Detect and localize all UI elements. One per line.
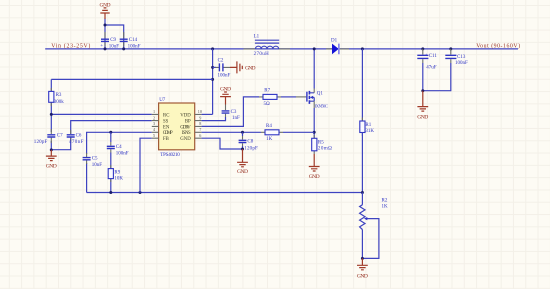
ground GND (above C3, inverted) — [220, 87, 231, 105]
svg-text:3: 3 — [153, 121, 155, 126]
svg-text:C2: C2 — [218, 58, 224, 63]
svg-text:20mΩ: 20mΩ — [318, 147, 332, 152]
svg-text:10: 10 — [198, 109, 202, 114]
wire VDD (pin 10) — [202, 113, 213, 115]
svg-text:GND: GND — [245, 66, 256, 72]
wire RC (pin 1) — [51, 113, 152, 115]
svg-text:R5: R5 — [318, 141, 324, 146]
svg-text:COMP: COMP — [163, 131, 173, 136]
wire rail2 (R3 top to VDD riser) — [51, 78, 212, 80]
svg-text:SS: SS — [163, 119, 169, 124]
svg-text:FB: FB — [163, 137, 169, 142]
pin numbers — [153, 109, 202, 138]
svg-text:2: 2 — [153, 115, 155, 120]
potentiometer R2 — [360, 193, 388, 259]
capacitor C14 — [120, 32, 141, 50]
svg-text:10K: 10K — [114, 177, 123, 182]
svg-text:C7: C7 — [57, 134, 63, 139]
svg-text:C9: C9 — [110, 38, 116, 43]
svg-text:+: + — [100, 44, 103, 49]
wire VDD riser (Vin to pin 10) — [212, 49, 214, 115]
svg-text:GND: GND — [220, 87, 231, 93]
svg-text:BP: BP — [185, 119, 191, 124]
svg-text:GND: GND — [417, 114, 428, 120]
svg-text:R3: R3 — [56, 93, 62, 98]
svg-text:C8: C8 — [247, 139, 253, 144]
svg-text:5Ω: 5Ω — [264, 102, 271, 107]
svg-text:GND: GND — [309, 174, 320, 180]
svg-text:EN: EN — [163, 125, 170, 130]
svg-text:C14: C14 — [129, 38, 138, 43]
svg-text:U7: U7 — [159, 98, 166, 103]
wire COMP (pin 4) — [87, 132, 152, 192]
svg-text:TPS40210: TPS40210 — [160, 153, 180, 158]
svg-text:6: 6 — [199, 133, 201, 138]
wire R3 branch / RC node vertical — [50, 79, 52, 149]
ground GND (right of C2, bar style) — [230, 61, 256, 73]
svg-text:5: 5 — [153, 133, 155, 138]
svg-text:R7: R7 — [264, 89, 270, 94]
svg-text:10uF: 10uF — [109, 45, 120, 50]
wire GND (pin 6) to C8 ground node — [202, 138, 243, 149]
svg-text:ISNS: ISNS — [182, 131, 191, 136]
svg-text:+: + — [425, 54, 428, 59]
svg-text:Q1: Q1 — [317, 91, 324, 96]
svg-text:R1: R1 — [365, 123, 371, 128]
wire FB net (bottom wire to divider) — [87, 192, 363, 194]
svg-text:100nF: 100nF — [116, 152, 129, 157]
capacitor C6 — [67, 130, 84, 145]
capacitor C5 — [83, 153, 103, 168]
wire D1 cathode to Vout / divider riser — [361, 47, 364, 50]
svg-text:D1: D1 — [331, 39, 338, 44]
resistor R5 (current sense) — [312, 135, 332, 154]
ground GND (below R5) — [309, 154, 320, 180]
wire FB (pin 5) riser — [140, 138, 152, 192]
wire SS (pin 2) to C6 — [51, 121, 152, 150]
diode D1 — [326, 39, 349, 55]
ground GND (top-left, above C9/C14) — [100, 3, 111, 19]
svg-text:C13: C13 — [457, 55, 466, 60]
svg-text:L1: L1 — [254, 35, 260, 40]
svg-text:1nF: 1nF — [232, 116, 240, 121]
svg-text:GND: GND — [100, 3, 111, 9]
resistor R4 — [261, 124, 283, 142]
svg-text:R9: R9 — [114, 171, 120, 176]
svg-text:7: 7 — [199, 127, 201, 132]
svg-text:R4: R4 — [266, 124, 272, 129]
svg-text:4: 4 — [153, 127, 156, 132]
svg-text:300k: 300k — [54, 100, 65, 105]
svg-text:VDD: VDD — [180, 113, 191, 118]
svg-text:1K: 1K — [382, 205, 389, 210]
ground GND (below C11/C13) — [417, 91, 428, 121]
pin names — [163, 113, 192, 142]
ground GND (below R2) — [357, 258, 368, 279]
wire Q1 source down — [313, 108, 315, 138]
svg-text:100nF: 100nF — [218, 74, 231, 79]
svg-text:9: 9 — [199, 115, 201, 120]
wiper of R2 — [362, 219, 379, 259]
wire GDRV (pin 8) up and over to R7 — [202, 97, 259, 127]
resistor R9 — [108, 153, 123, 193]
capacitor C7 — [34, 129, 63, 145]
capacitor C9 — [100, 32, 119, 50]
wire BP (pin 9) to C3 — [202, 117, 226, 121]
svg-text:C4: C4 — [116, 145, 122, 150]
resistor R3 — [49, 88, 65, 106]
svg-text:GND: GND — [180, 137, 191, 142]
transistor Q1 — [307, 89, 328, 109]
svg-text:120pF: 120pF — [244, 147, 258, 152]
svg-text:IXN50C: IXN50C — [315, 104, 328, 109]
svg-text:GND: GND — [46, 164, 57, 170]
capacitor C8 — [239, 132, 258, 151]
svg-text:R2: R2 — [382, 199, 388, 204]
wire Vin rail — [45, 48, 518, 50]
wire R4 to Q1 source node — [283, 131, 314, 133]
svg-text:470nF: 470nF — [69, 140, 84, 145]
wire top-left decoupling tee — [105, 19, 124, 49]
resistor R1 — [360, 118, 375, 137]
svg-text:Vin (23-25V): Vin (23-25V) — [51, 42, 90, 49]
svg-text:GND: GND — [237, 169, 248, 175]
pin stubs right — [195, 114, 202, 138]
svg-text:C5: C5 — [92, 156, 98, 161]
wire ISNS (pin 7) to R4 — [202, 131, 261, 133]
svg-text:1K: 1K — [266, 137, 273, 142]
svg-text:31K: 31K — [365, 129, 374, 134]
ground GND (below C7/C6) — [46, 150, 57, 170]
resistor R7 — [259, 89, 281, 107]
svg-text:270uH: 270uH — [254, 52, 270, 57]
svg-text:RC: RC — [163, 113, 169, 118]
svg-text:47uF: 47uF — [426, 66, 437, 71]
svg-text:100nF: 100nF — [128, 45, 141, 50]
capacitor C4 — [107, 132, 129, 156]
pin stubs left — [152, 114, 159, 138]
svg-text:1: 1 — [153, 109, 155, 114]
svg-text:10nF: 10nF — [92, 163, 103, 168]
svg-text:120pF: 120pF — [34, 140, 48, 145]
junction dots on Vin rail — [104, 24, 107, 27]
wire R7 to Q1 gate — [281, 96, 296, 98]
capacitor C11 — [417, 47, 437, 90]
svg-text:C3: C3 — [231, 110, 237, 115]
capacitor C3 — [222, 105, 240, 122]
capacitor C13 — [423, 47, 468, 90]
svg-text:C6: C6 — [76, 133, 82, 138]
inductor L1 — [244, 35, 291, 58]
wire Q1 drain to rail — [313, 49, 315, 89]
op-amp U7 TPS40210 — [152, 98, 202, 158]
svg-text:8: 8 — [199, 121, 201, 126]
svg-text:Vout (90-160V): Vout (90-160V) — [476, 43, 520, 50]
svg-text:C11: C11 — [429, 54, 438, 59]
ground GND (below C8) — [237, 149, 248, 175]
junction C7/C6 ground node — [50, 148, 53, 151]
svg-text:100nF: 100nF — [455, 61, 468, 66]
capacitor C2 — [213, 58, 231, 78]
svg-text:GDRV: GDRV — [180, 125, 191, 130]
svg-text:GND: GND — [357, 274, 368, 280]
